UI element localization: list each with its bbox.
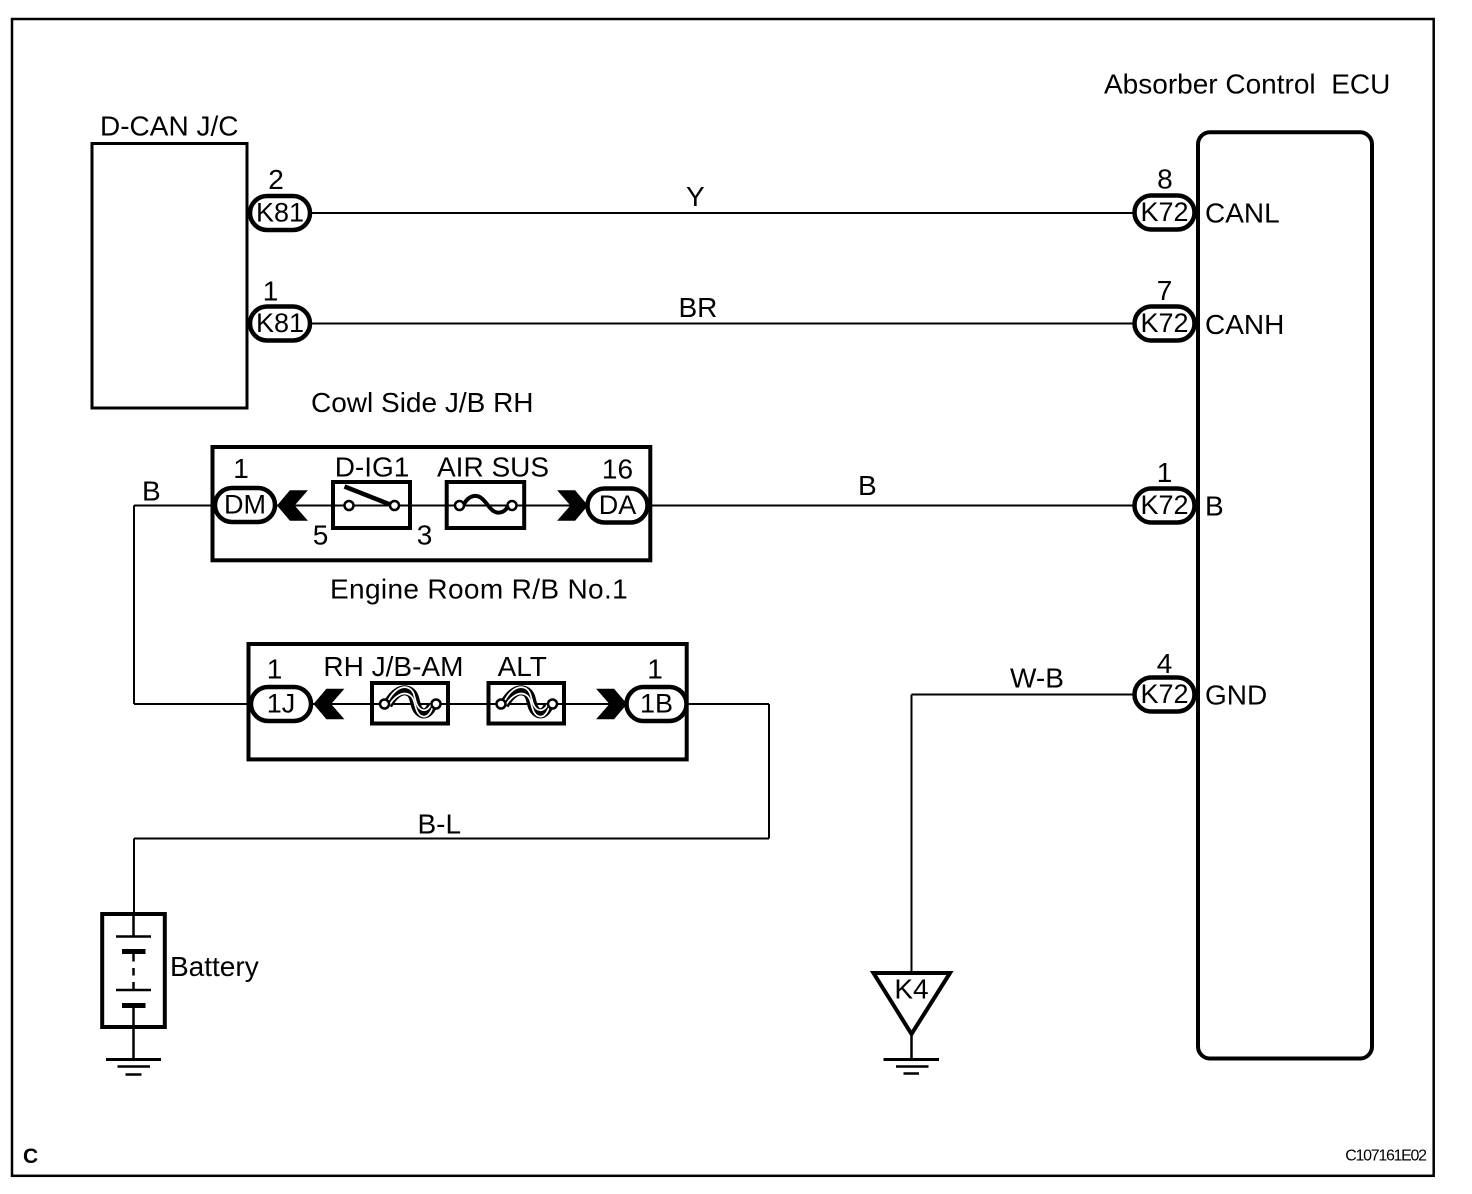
svg-text:B: B — [1205, 491, 1224, 522]
svg-text:Y: Y — [686, 181, 705, 212]
svg-text:K72: K72 — [1140, 197, 1188, 227]
svg-text:Battery: Battery — [170, 951, 259, 982]
svg-text:B: B — [142, 476, 161, 507]
svg-text:K72: K72 — [1140, 308, 1188, 338]
svg-text:1J: 1J — [267, 689, 296, 719]
svg-text:Absorber Control ECU: Absorber Control ECU — [1104, 69, 1390, 100]
svg-text:K72: K72 — [1140, 679, 1188, 709]
svg-text:D-CAN J/C: D-CAN J/C — [100, 111, 238, 142]
svg-text:8: 8 — [1157, 164, 1173, 195]
svg-text:C107161E02: C107161E02 — [1345, 1147, 1427, 1164]
svg-text:DM: DM — [224, 490, 266, 520]
svg-text:3: 3 — [417, 520, 433, 551]
svg-text:1: 1 — [263, 276, 279, 307]
svg-text:ALT: ALT — [498, 651, 547, 682]
svg-text:2: 2 — [268, 164, 284, 195]
svg-text:K81: K81 — [256, 308, 304, 338]
svg-text:CANL: CANL — [1205, 198, 1280, 229]
svg-text:W-B: W-B — [1010, 663, 1064, 694]
svg-text:BR: BR — [679, 292, 718, 323]
svg-text:K4: K4 — [894, 974, 928, 1005]
svg-text:7: 7 — [1157, 275, 1173, 306]
svg-text:RH J/B-AM: RH J/B-AM — [323, 651, 463, 682]
svg-text:B-L: B-L — [418, 809, 462, 840]
svg-text:16: 16 — [602, 454, 633, 485]
svg-text:1: 1 — [1157, 457, 1173, 488]
svg-text:1: 1 — [233, 453, 249, 484]
svg-text:CANH: CANH — [1205, 309, 1284, 340]
svg-text:C: C — [23, 1145, 38, 1168]
svg-text:AIR SUS: AIR SUS — [437, 452, 549, 483]
svg-text:Cowl Side J/B RH: Cowl Side J/B RH — [311, 387, 534, 418]
svg-text:4: 4 — [1157, 648, 1173, 679]
svg-text:D-IG1: D-IG1 — [335, 452, 410, 483]
svg-text:K72: K72 — [1140, 490, 1188, 520]
svg-text:5: 5 — [313, 520, 329, 551]
svg-text:1B: 1B — [640, 689, 673, 719]
svg-text:B: B — [858, 470, 877, 501]
svg-text:K81: K81 — [256, 198, 304, 228]
svg-text:1: 1 — [267, 654, 283, 685]
svg-text:DA: DA — [599, 490, 637, 520]
svg-text:1: 1 — [647, 654, 663, 685]
svg-text:Engine Room R/B No.1: Engine Room R/B No.1 — [330, 574, 628, 605]
svg-text:GND: GND — [1205, 680, 1267, 711]
